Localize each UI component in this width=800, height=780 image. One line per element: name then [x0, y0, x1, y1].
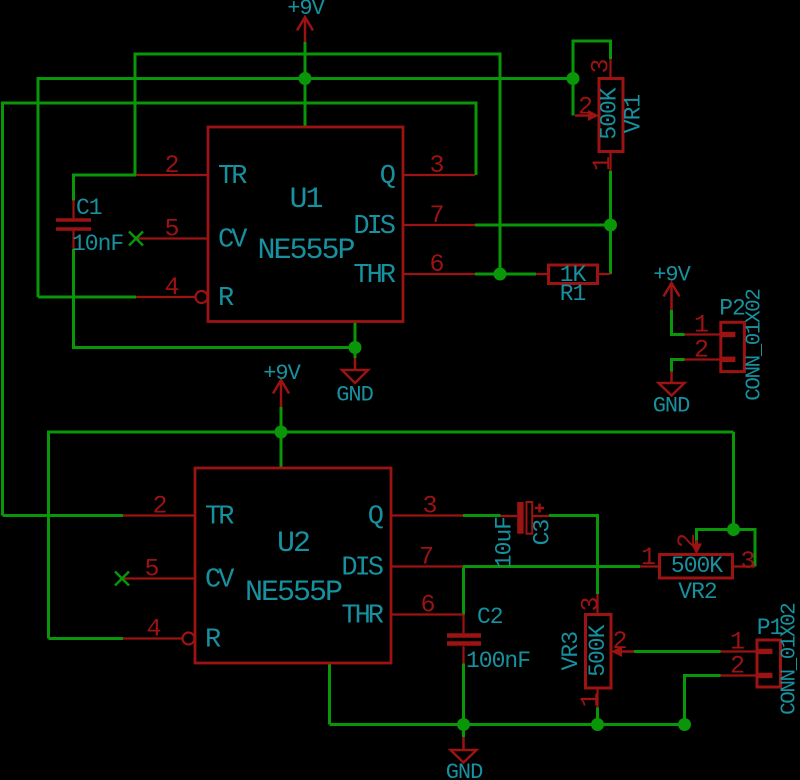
ground symbol 2: [670, 372, 673, 384]
wire R pin4 U2: [49, 637, 124, 640]
junction C2 gnd rail: [457, 718, 470, 731]
ground symbol 1: [354, 358, 357, 370]
svg-text:+9V: +9V: [263, 361, 301, 386]
wire C1 top to TR1: [74, 175, 137, 201]
U1 pin 4 R lead: [136, 296, 195, 298]
wire DIS2 to VR2 pin1: [463, 565, 640, 568]
U2 pin 3 Q lead: [391, 514, 463, 516]
P2 pin 1 lead: [685, 333, 721, 335]
U2 pin 4 inversion bubble: [183, 633, 195, 645]
power +9V symbol 3: [670, 283, 673, 310]
wire C1 bottom to gnd rail: [74, 249, 356, 348]
wire VR1 pin3 loop: [573, 41, 611, 79]
svg-text:CONN_01X02: CONN_01X02: [744, 289, 767, 401]
svg-text:500K: 500K: [585, 624, 611, 676]
wire rail C Q1 to TR2: [3, 103, 477, 516]
wire VR3 wiper to P1 pin1: [634, 650, 721, 653]
svg-text:+9V: +9V: [287, 0, 325, 21]
U1 pin 5 CV lead: [136, 237, 208, 239]
svg-text:C3: C3: [530, 520, 556, 546]
U2 pin 2 TR lead: [123, 514, 195, 516]
ground symbol 3: [462, 737, 465, 750]
svg-text:NE555P: NE555P: [257, 234, 354, 268]
no-connect X pin5 U1: [129, 232, 143, 246]
wire VR1 pin1 to R1 right: [609, 171, 612, 274]
svg-text:CONN_01X02: CONN_01X02: [779, 603, 800, 715]
svg-text:2: 2: [673, 534, 702, 548]
svg-text:C2: C2: [477, 604, 503, 630]
wire VR3 pin1 down: [596, 708, 599, 725]
svg-text:Q: Q: [380, 162, 395, 192]
wire +9V3 to P2 pin1: [672, 310, 685, 335]
wire rail A TR-THR top: [135, 54, 500, 274]
U1 pin 3 Q lead: [403, 174, 475, 176]
svg-text:10nF: 10nF: [72, 231, 123, 257]
svg-text:CV: CV: [205, 566, 235, 596]
P1 pin 2 lead: [721, 674, 758, 676]
U1 pin 6 THR lead: [403, 273, 475, 275]
svg-text:THR: THR: [353, 261, 395, 291]
text U1 pin numbers: [164, 151, 443, 302]
wire U1 gnd pin: [354, 322, 357, 359]
wire TR2: [3, 514, 124, 517]
svg-text:7: 7: [429, 201, 443, 230]
potentiometer VR3: [586, 615, 612, 689]
junction VR3 pin1 rail: [591, 718, 604, 731]
potentiometer VR2: [660, 555, 733, 579]
wire C3 right to VR3 pin3: [549, 516, 598, 595]
U1 pin 7 DIS lead: [403, 224, 475, 226]
wire C2 bottom to rail: [462, 664, 465, 738]
junction U1 gnd: [349, 341, 362, 354]
svg-text:4: 4: [164, 273, 178, 302]
junction +9V2 rail: [275, 426, 288, 439]
svg-text:3: 3: [587, 60, 616, 74]
text U2 pin numbers: [144, 492, 436, 644]
wire +9V2 stem: [280, 407, 283, 468]
op-amp U2 body: [195, 468, 391, 663]
wire R1 pin4 U1: [38, 296, 136, 299]
svg-text:1: 1: [641, 543, 655, 572]
svg-text:2: 2: [152, 492, 166, 521]
connector P2: [721, 322, 745, 371]
svg-text:3: 3: [422, 492, 436, 521]
connector P1: [757, 640, 781, 687]
svg-text:U1: U1: [289, 183, 322, 217]
svg-text:GND: GND: [336, 383, 373, 408]
no-connect X pin5 U2: [115, 572, 129, 586]
svg-text:GND: GND: [653, 394, 690, 419]
svg-text:1: 1: [588, 157, 617, 171]
svg-text:6: 6: [420, 591, 434, 620]
power +9V symbol 2: [280, 380, 283, 407]
svg-text:DIS: DIS: [353, 212, 394, 242]
wire +9V rail to VR2 junction: [732, 432, 735, 530]
svg-text:2: 2: [164, 151, 178, 180]
svg-text:2: 2: [730, 652, 744, 681]
svg-text:C1: C1: [76, 195, 102, 221]
capacitor C3 polarized: [517, 502, 523, 534]
svg-text:2: 2: [578, 93, 592, 122]
capacitor C1: [56, 218, 91, 222]
svg-text:500K: 500K: [597, 87, 623, 139]
text U1 pin names: [218, 162, 396, 314]
U2 pin 6 THR lead: [391, 613, 463, 615]
svg-text:TR: TR: [205, 503, 234, 533]
svg-text:100nF: 100nF: [466, 648, 530, 674]
svg-text:+9V: +9V: [653, 263, 691, 288]
wire VR1 wiper feed: [572, 79, 575, 116]
junction +9V1 rail B: [299, 72, 312, 85]
svg-text:VR2: VR2: [678, 579, 717, 605]
svg-text:3: 3: [429, 151, 443, 180]
svg-text:THR: THR: [341, 602, 383, 632]
junction VR1 top: [567, 72, 580, 85]
svg-text:GND: GND: [446, 760, 483, 780]
U2 pin 4 R lead: [123, 637, 182, 639]
svg-text:7: 7: [419, 543, 433, 572]
svg-text:P2: P2: [719, 296, 745, 322]
op-amp U1 body: [208, 127, 403, 322]
svg-text:5: 5: [144, 555, 158, 584]
svg-text:DIS: DIS: [341, 554, 382, 584]
svg-text:VR1: VR1: [621, 95, 647, 134]
svg-text:Q: Q: [368, 503, 383, 533]
power +9V symbol 1: [304, 17, 307, 42]
svg-text:NE555P: NE555P: [245, 576, 342, 610]
wire DIS2-THR2 vertical: [462, 567, 465, 615]
svg-text:VR3: VR3: [558, 632, 584, 671]
svg-text:CV: CV: [218, 226, 248, 256]
resistor R1: [549, 265, 598, 284]
svg-text:3: 3: [740, 547, 754, 576]
wire P1 pin2 down: [685, 676, 721, 725]
svg-text:R1: R1: [560, 281, 586, 307]
svg-text:TR: TR: [218, 162, 247, 192]
U2 pin 7 DIS lead: [391, 565, 463, 567]
svg-text:6: 6: [429, 250, 443, 279]
P2 pin 2 lead: [685, 358, 721, 360]
svg-text:3: 3: [577, 598, 606, 612]
junction VR2 top: [727, 523, 740, 536]
wire U2 gnd pin down: [328, 663, 331, 725]
svg-text:10uF: 10uF: [492, 517, 518, 568]
wire P2 pin2 to gnd: [672, 360, 685, 372]
U1 pin 2 TR lead: [136, 174, 208, 176]
svg-text:5: 5: [164, 215, 178, 244]
wire rail D +9V lower: [49, 432, 734, 639]
wire bottom gnd rail: [330, 723, 685, 726]
junction THR1: [494, 268, 507, 281]
svg-text:1: 1: [576, 693, 605, 707]
wire VR2 top loop: [697, 530, 756, 567]
U2 pin 5 CV lead: [123, 577, 195, 579]
wire +9V1 stem: [304, 42, 307, 127]
potentiometer VR1: [599, 79, 623, 152]
text U2 pin names: [205, 503, 384, 656]
wire Q2 to C3 left: [463, 514, 501, 517]
svg-text:500K: 500K: [671, 553, 723, 579]
wire DIS1: [475, 224, 611, 227]
U1 pin 4 inversion bubble: [196, 291, 208, 303]
capacitor C2: [447, 633, 481, 638]
svg-text:4: 4: [146, 615, 160, 644]
svg-text:U2: U2: [277, 527, 309, 561]
junction DIS1 VR1: [604, 219, 617, 232]
svg-text:2: 2: [694, 336, 708, 365]
junction P1 pin2 rail: [678, 718, 691, 731]
svg-text:2: 2: [612, 627, 626, 656]
wire rail B +9V top: [38, 79, 573, 298]
P1 pin 1 lead: [721, 650, 758, 652]
wire THR1 to R1: [475, 273, 536, 276]
